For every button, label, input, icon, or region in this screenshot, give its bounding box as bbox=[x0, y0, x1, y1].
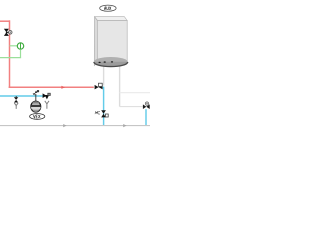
gray circuit top branch bbox=[120, 92, 150, 94]
boiler bottom cylinder bbox=[94, 57, 128, 67]
drain discharge funnel bbox=[14, 103, 18, 109]
wire green sensor drop bbox=[20, 49, 22, 57]
label VEX bbox=[30, 114, 45, 120]
wire red supply bottom horizontal bbox=[9, 86, 94, 88]
boiler pipe left gray bbox=[103, 64, 105, 86]
flow arrow red bbox=[61, 86, 65, 89]
boiler pipe right gray bbox=[119, 64, 121, 107]
expansion vessel VEX bbox=[30, 101, 42, 112]
boiler connection dot 1 bbox=[98, 62, 100, 63]
boiler bottom rim dark bbox=[94, 62, 128, 67]
boiler connection dot 2 bbox=[104, 61, 106, 62]
drain valve on return bbox=[14, 96, 18, 103]
air vent on expansion stem bbox=[33, 90, 39, 96]
return main gray line bbox=[0, 125, 150, 127]
valve gray circuit right bbox=[143, 102, 150, 109]
safety valve SV bbox=[43, 93, 51, 99]
temperature sensor T1 bbox=[17, 43, 23, 49]
return arrow 2 bbox=[123, 124, 126, 127]
valve V1 on riser bbox=[4, 29, 12, 36]
boiler top face bbox=[95, 17, 128, 21]
wire green horizontal to left edge bbox=[0, 57, 21, 59]
wire red supply top horizontal bbox=[0, 20, 10, 22]
wire cyan return horizontal bbox=[0, 95, 44, 97]
return arrow 1 bbox=[63, 124, 66, 127]
valve V2 at boiler inlet bbox=[95, 83, 103, 89]
wire red supply riser vertical bbox=[9, 20, 11, 87]
boiler front face bbox=[97, 21, 127, 63]
boiler connection dot 3 bbox=[111, 61, 113, 62]
label AUX bbox=[100, 5, 116, 11]
wire cyan boiler return drop bbox=[103, 87, 104, 125]
label MC bbox=[95, 111, 100, 114]
sensor attach line green bbox=[10, 45, 18, 47]
safety valve discharge funnel bbox=[45, 101, 49, 109]
expansion vessel stem bbox=[35, 96, 37, 101]
boiler left face bbox=[94, 17, 97, 66]
wire cyan drop right bbox=[145, 109, 147, 125]
valve MC bbox=[101, 110, 108, 117]
gray circuit bottom branch bbox=[120, 106, 143, 108]
